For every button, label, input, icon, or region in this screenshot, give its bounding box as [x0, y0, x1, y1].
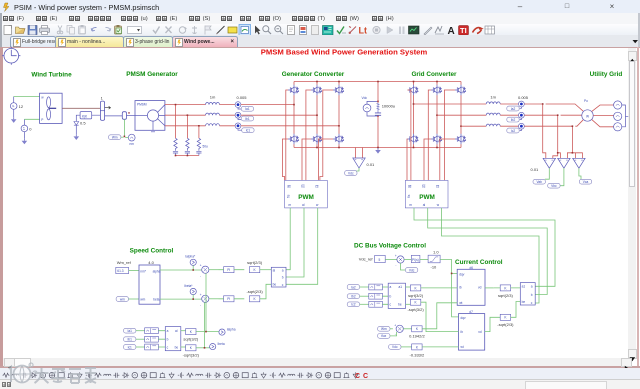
summer S1: [200, 264, 209, 279]
PWM1 input wires from speed control: [286, 208, 318, 284]
svg-text:a: a: [390, 285, 392, 289]
junction dots on phases: [175, 104, 177, 106]
svg-text:m: m: [409, 203, 412, 207]
svg-text:Generator Converter: Generator Converter: [282, 71, 345, 78]
gain K8: [410, 344, 459, 358]
DC voltage divider sensor: [345, 148, 375, 176]
svg-text:nm: nm: [130, 142, 135, 146]
svg-text:K|K: K|K: [82, 115, 88, 119]
IGBT Q4: [311, 134, 322, 144]
svg-text:5: 5: [379, 258, 381, 262]
svg-text:W: W: [586, 114, 589, 118]
ground on DC minus: [375, 148, 381, 154]
AC source Va: [614, 101, 622, 109]
summer S3: [395, 254, 404, 268]
svg-text:PMSM: PMSM: [137, 102, 147, 106]
transform block al-be to abc 2: [520, 283, 535, 306]
converter leg 2: [316, 82, 318, 148]
svg-text:+: +: [200, 293, 202, 297]
svg-text:vd: vd: [478, 330, 482, 334]
PWM block grid side: [405, 180, 448, 208]
svg-text:sqrt(3/2): sqrt(3/2): [183, 337, 199, 342]
shaft connector MS1: [100, 96, 110, 121]
svg-text:Ic1: Ic1: [128, 345, 132, 349]
svg-text:Vab: Vab: [536, 180, 542, 184]
neutral bus of sources: [622, 105, 629, 127]
junction dots grid converter: [413, 81, 415, 83]
wire limiter to current control: [440, 260, 458, 317]
gain K10 output q: [485, 302, 521, 332]
AC source Vb: [614, 112, 622, 120]
svg-text:nm*: nm*: [140, 269, 146, 273]
pitch source VP: [21, 119, 32, 138]
wire S1 to PI1: [209, 269, 219, 271]
IGBT Q9: [431, 85, 442, 95]
svg-text:Speed Control: Speed Control: [130, 248, 174, 255]
svg-text:vd: vd: [478, 286, 482, 290]
filter Fb: [145, 336, 159, 342]
svg-text:Wm: Wm: [381, 327, 387, 331]
wires filters to abc block: [158, 331, 165, 347]
svg-text:Vdc: Vdc: [409, 268, 415, 272]
node Ialpha*: [190, 259, 196, 265]
svg-text:al: al: [302, 203, 305, 207]
svg-text:a: a: [167, 329, 169, 333]
svg-text:Vdc: Vdc: [392, 345, 398, 349]
svg-text:sqrt(2/3): sqrt(2/3): [498, 293, 514, 298]
filter Fc2: [369, 301, 383, 307]
gain K6: [406, 299, 459, 331]
svg-text:-sqrt(3/2): -sqrt(3/2): [407, 307, 424, 312]
shunt common bus: [176, 155, 199, 157]
shunt branch Rc: [196, 126, 208, 155]
PWM2 input wires from current control: [414, 208, 555, 286]
svg-text:-10: -10: [431, 265, 438, 270]
status bar: [0, 379, 640, 389]
svg-text:a: a: [282, 268, 284, 272]
svg-text:Utility Grid: Utility Grid: [590, 71, 623, 78]
inductor Lc: [206, 124, 220, 126]
CT sensor Ic2: [507, 123, 573, 133]
wire node to sum2: [160, 295, 202, 300]
svg-text:Ic2: Ic2: [351, 303, 355, 307]
green sensor wire down: [123, 119, 125, 136]
svg-text:wm: wm: [120, 297, 125, 301]
IGBT Q8: [408, 134, 419, 144]
svg-text:f/s: f/s: [407, 194, 411, 198]
svg-text:Current Control: Current Control: [455, 259, 503, 266]
wire S2 to PI2: [209, 298, 219, 300]
grid converter leg 1: [413, 82, 415, 148]
svg-text:Ia1: Ia1: [245, 107, 250, 111]
svg-text:PI(s): PI(s): [412, 258, 419, 262]
wire VP to turbine P port: [24, 118, 41, 120]
label Ic2 input: [347, 302, 369, 307]
voltage sense tap c: [567, 127, 582, 158]
shaft wire turbine to coupler M1: [62, 107, 100, 109]
IGBT Q6: [333, 134, 344, 144]
label Ib1 input: [124, 337, 145, 342]
svg-text:Wind Turbine: Wind Turbine: [31, 72, 72, 79]
node Ialpha: [219, 328, 236, 336]
S1 feedback wire from Ialpha: [205, 273, 207, 331]
svg-text:ib: ib: [461, 330, 464, 334]
PWM block generator side: [285, 180, 328, 208]
svg-text:alpha: alpha: [153, 269, 161, 273]
CT sensor Ib1: [235, 112, 317, 121]
svg-text:PMSM Generator: PMSM Generator: [126, 71, 178, 78]
shunt branch Ra: [173, 105, 178, 156]
S2 feedback wire from Ibeta: [204, 302, 206, 347]
svg-text:Ialpha*: Ialpha*: [185, 255, 196, 259]
inductor Lb: [206, 113, 220, 115]
svg-text:Vdc: Vdc: [348, 171, 354, 175]
constant 61.3: [116, 267, 139, 273]
svg-text:-sqrt(3/2): -sqrt(3/2): [183, 353, 200, 358]
IGBT Q11: [455, 85, 466, 95]
svg-text:al: al: [273, 268, 276, 272]
svg-text:beta: beta: [153, 297, 159, 301]
shunt branch Rb: [185, 116, 190, 156]
vertical scrollbar: [628, 48, 636, 358]
menu bar: [0, 13, 640, 24]
svg-text:Grid Converter: Grid Converter: [411, 71, 457, 78]
svg-text:sqrt(3/2): sqrt(3/2): [408, 293, 424, 298]
svg-text:dqv: dqv: [461, 316, 467, 320]
svg-text:-: -: [200, 275, 201, 279]
svg-text:a1: a1: [522, 285, 526, 289]
svg-text:61.3: 61.3: [117, 269, 123, 273]
svg-text:Ib1: Ib1: [245, 117, 250, 121]
phase b wire: [437, 114, 486, 116]
IGBT Q7: [408, 85, 419, 95]
svg-text:b: b: [390, 294, 392, 298]
inductor Lga: [486, 102, 500, 104]
PI controller PI2: [224, 296, 234, 302]
phase b wire: [165, 114, 206, 116]
svg-text:1.0: 1.0: [433, 250, 439, 255]
svg-text:+: +: [200, 264, 202, 268]
gate wires generator converter: [282, 90, 288, 180]
inductor Lgc: [486, 124, 500, 126]
IGBT Q5: [333, 85, 344, 95]
svg-text:0.5: 0.5: [80, 120, 86, 125]
label Ia2 input: [347, 285, 369, 290]
svg-text:12: 12: [19, 104, 24, 109]
label Vdc feedback: [401, 263, 418, 272]
label flux input: [378, 332, 397, 338]
CT sensor Ia2: [507, 101, 543, 111]
svg-text:Vca: Vca: [583, 180, 589, 184]
CT sensor Ic1: [235, 123, 339, 133]
svg-text:Ia2: Ia2: [351, 285, 356, 289]
svg-text:Wm_ref: Wm_ref: [117, 260, 132, 265]
transform block abc to al-be 2: [388, 283, 405, 308]
svg-text:al: al: [175, 329, 178, 333]
constant Vdc ref block: [375, 255, 397, 262]
svg-text:-: -: [200, 304, 201, 308]
filter Fc: [145, 344, 159, 350]
svg-text:PWM: PWM: [298, 194, 314, 201]
filter Fa: [145, 328, 159, 334]
line sensor Vab: [533, 158, 556, 184]
CT sensor Ib2: [507, 112, 558, 122]
DC link voltage sensor Vdc: [362, 96, 379, 117]
wattmeter to sources wires: [592, 105, 614, 127]
label Vdc input: [389, 345, 412, 350]
filter Fb2: [369, 293, 383, 299]
svg-text:0.01: 0.01: [531, 167, 540, 172]
svg-text:1m: 1m: [210, 94, 216, 99]
IGBT Q10: [431, 134, 442, 144]
CT sensor Ia1: [235, 102, 294, 112]
dq block 2: [459, 310, 485, 350]
svg-text:DC Bus Voltage Control: DC Bus Voltage Control: [354, 243, 426, 250]
svg-text:Ia1: Ia1: [127, 329, 132, 333]
PI block voltage loop: [404, 255, 420, 262]
horizontal scrollbar: [3, 358, 628, 366]
gain K2: [249, 296, 259, 302]
svg-text:Ibeta: Ibeta: [218, 342, 225, 346]
svg-text:-sqrt(2/3): -sqrt(2/3): [246, 289, 263, 294]
svg-text:Ic2: Ic2: [511, 129, 515, 133]
utility phase c wire: [575, 120, 583, 126]
PMSM machine: [135, 101, 165, 132]
DC link capacitor C1: [375, 81, 395, 149]
label WM: [109, 135, 124, 140]
svg-text:a1: a1: [399, 285, 403, 289]
wind speed source VW: [10, 97, 23, 118]
svg-text:be: be: [398, 303, 402, 307]
phase c wire: [461, 125, 486, 127]
filter Fa2: [369, 284, 383, 290]
wattmeter Po: [582, 99, 593, 121]
svg-text:-sqrt(2/3): -sqrt(2/3): [497, 322, 514, 327]
speed damping diode D1: [74, 122, 79, 135]
converter leg 1: [293, 82, 295, 148]
DC minus bus: [294, 147, 461, 149]
PI controller PI1: [224, 267, 234, 273]
phase a wire PMSM to inductor: [165, 104, 206, 106]
inductor La: [206, 103, 220, 105]
wires filters to abc2 block: [382, 287, 388, 304]
bottom element toolbar: [0, 368, 640, 379]
svg-text:be: be: [522, 300, 526, 304]
svg-text:dqv: dqv: [459, 272, 465, 276]
svg-text:+: +: [394, 323, 396, 327]
label Ic1 input: [124, 345, 145, 350]
tab bar: [0, 35, 640, 47]
limiter block: [420, 250, 440, 270]
wires inductors to CTs: [220, 105, 236, 126]
gain K7: [403, 303, 457, 339]
dq block 1: [457, 266, 485, 305]
junction node: [124, 136, 126, 138]
title bar: [0, 0, 640, 13]
multiplier M3: [394, 323, 403, 336]
svg-text:1: 1: [101, 96, 104, 101]
IGBT Q2: [288, 134, 299, 144]
inductor Lgb: [486, 113, 500, 115]
phase a wire grid converter to inductor: [414, 103, 487, 105]
junction dots on buses: [316, 81, 318, 83]
svg-text:f/s: f/s: [287, 194, 291, 198]
svg-text:wt: wt: [459, 301, 462, 305]
svg-text:PWM: PWM: [419, 194, 435, 201]
gain K4: [181, 345, 210, 358]
svg-text:Ib2: Ib2: [511, 118, 516, 122]
svg-text:-: -: [395, 264, 396, 268]
ground below VP: [22, 139, 28, 145]
line sensor Vca: [573, 158, 592, 184]
utility phase b wire: [561, 114, 582, 116]
shaft wire MS1 to coupler: [105, 115, 123, 117]
label wm input: [116, 297, 139, 302]
line sensor Vbc: [548, 158, 570, 188]
svg-text:4.0: 4.0: [148, 260, 154, 265]
svg-text:b: b: [167, 337, 169, 341]
ground below D1: [74, 134, 80, 140]
svg-text:flux: flux: [381, 334, 386, 338]
IGBT Q1: [288, 85, 299, 95]
svg-text:P: P: [41, 118, 43, 122]
transform block al-be to abc: [271, 267, 286, 287]
svg-text:Ic1: Ic1: [246, 129, 250, 133]
svg-text:0.01: 0.01: [367, 162, 376, 167]
watermark: [0, 352, 360, 389]
svg-text:1m: 1m: [490, 94, 496, 99]
svg-text:Vdc_ref: Vdc_ref: [359, 256, 374, 261]
node Ibeta: [210, 342, 225, 350]
svg-text:m: m: [289, 203, 292, 207]
svg-text:Ib2: Ib2: [351, 295, 356, 299]
svg-text:PMSM Based Wind Power Generati: PMSM Based Wind Power Generation System: [261, 48, 428, 57]
wire node to sum1: [160, 265, 202, 270]
svg-text:-0.333/2: -0.333/2: [410, 352, 425, 357]
label Ib2 input: [347, 294, 369, 299]
grid converter leg 2: [436, 82, 438, 148]
svg-text:Po: Po: [584, 99, 588, 103]
transform block abc to al-be: [165, 327, 181, 351]
grid converter leg 3: [460, 82, 462, 148]
gain K3: [181, 329, 219, 342]
IGBT Q12: [455, 134, 466, 144]
utility phase a wire: [546, 104, 584, 111]
svg-text:b: b: [531, 293, 533, 297]
svg-text:wt: wt: [461, 345, 464, 349]
speed sensor coupler: [122, 112, 135, 120]
svg-text:0.005: 0.005: [518, 95, 529, 100]
svg-text:ib: ib: [459, 286, 462, 290]
svg-text:be: be: [273, 283, 277, 287]
converter leg 3: [338, 82, 340, 148]
wires to grid CTs: [500, 104, 518, 126]
voltage sense tap a: [543, 105, 546, 159]
gain K9 output d: [485, 285, 520, 298]
svg-text:0.005: 0.005: [236, 95, 247, 100]
IGBT Q3: [311, 85, 322, 95]
AC source Vc: [614, 123, 622, 131]
label Wm torque input: [378, 326, 393, 331]
svg-text:50u: 50u: [203, 145, 209, 149]
svg-text:Ialpha: Ialpha: [227, 328, 236, 332]
speed sensor SS1: [125, 134, 135, 146]
main toolbar: [0, 24, 640, 35]
svg-text:a: a: [531, 285, 533, 289]
svg-text:Ia2: Ia2: [511, 107, 516, 111]
svg-text:Ibeta*: Ibeta*: [184, 284, 193, 288]
gain K1: [249, 267, 259, 273]
svg-text:10000u: 10000u: [382, 104, 395, 109]
svg-text:0.1942/2: 0.1942/2: [409, 334, 425, 339]
svg-text:Vbc: Vbc: [551, 184, 557, 188]
svg-text:Wm: Wm: [112, 136, 118, 140]
wire VW to turbine w port: [14, 96, 41, 98]
voltage sense tap b: [553, 116, 561, 158]
voltage tap junctions: [542, 103, 544, 105]
svg-text:0: 0: [29, 127, 32, 132]
svg-text:-: -: [395, 333, 396, 337]
summer S2: [200, 293, 209, 308]
svg-text:b: b: [282, 275, 284, 279]
svg-text:+: +: [395, 254, 397, 258]
svg-text:wm: wm: [140, 297, 145, 301]
svg-text:sqrt(2/3): sqrt(2/3): [247, 260, 263, 265]
svg-text:Vdc: Vdc: [362, 96, 368, 100]
speed controller block: [139, 260, 161, 304]
ground below VW: [11, 117, 17, 123]
svg-text:Ib1: Ib1: [127, 338, 132, 342]
gain K5: [406, 285, 458, 298]
svg-text:al: al: [423, 203, 426, 207]
node Ibeta*: [190, 288, 196, 294]
phase c wire: [165, 125, 206, 127]
wind turbine block WT1: [40, 93, 63, 123]
mech load block K|K: [76, 112, 100, 126]
DC plus bus: [294, 81, 461, 83]
gate wires grid converter: [407, 90, 411, 180]
label Ia1 input: [124, 328, 145, 333]
svg-text:be: be: [175, 345, 179, 349]
clock element: [2, 47, 20, 65]
